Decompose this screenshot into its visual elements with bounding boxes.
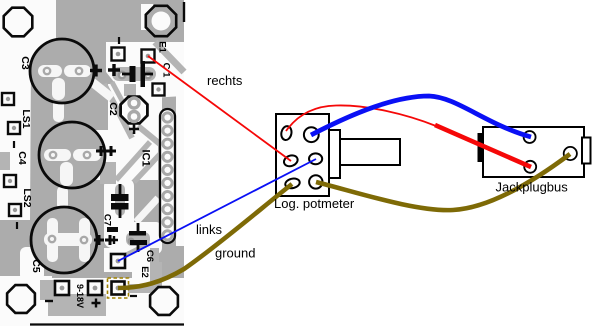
C4 inner trace lower bbox=[60, 162, 73, 186]
C3 pad hole right bbox=[76, 68, 82, 74]
pad below C1 bbox=[153, 84, 165, 96]
solder dot C6 lead bbox=[128, 238, 135, 245]
wire red thin pot top-left toward jack bbox=[286, 105, 436, 131]
PCB white etch region C6 pad bbox=[104, 248, 134, 272]
pad supply minus bbox=[55, 281, 69, 295]
C5 pad hole right bbox=[81, 237, 87, 243]
svg-text:C3: C3 bbox=[19, 56, 31, 70]
pad LS1 a bbox=[2, 93, 14, 105]
PCB board copper pour bbox=[0, 0, 184, 326]
jack hole top bbox=[524, 131, 536, 143]
svg-text:C2: C2 bbox=[107, 102, 119, 116]
potentiometer shaft bbox=[340, 139, 400, 165]
PCB white etch region C2 bbox=[108, 84, 162, 140]
C4 inner trace left bbox=[44, 149, 71, 161]
C2 hole bottom bbox=[129, 112, 139, 122]
LS1 minus mark bbox=[13, 141, 15, 148]
capacitor C3 body bbox=[30, 39, 94, 103]
C5 pad hole left bbox=[49, 236, 55, 242]
PCB white etch region C6/E2 labels bbox=[132, 246, 156, 282]
jack hole bottom bbox=[524, 161, 536, 173]
supply minus mark bbox=[45, 300, 53, 302]
C3 polarity plus left bbox=[90, 65, 102, 77]
pad LS1 b bbox=[8, 122, 20, 134]
svg-text:C7: C7 bbox=[102, 214, 113, 226]
mounting hole top-left bbox=[4, 8, 33, 37]
supply plus mark bbox=[92, 299, 101, 308]
copper trace diagonal C2 area 1 bbox=[104, 84, 132, 138]
pot terminal top-left bbox=[280, 125, 293, 141]
capacitor C4 body bbox=[39, 122, 105, 188]
wire blue thin C6 pad to pot mid-right bbox=[118, 159, 316, 261]
potentiometer flange bbox=[329, 130, 340, 178]
copper trace diagonal C2 area 2 bbox=[112, 82, 126, 108]
PCB white etch region right column bbox=[176, 96, 184, 246]
C5 inner trace vertical right bbox=[79, 218, 90, 262]
pad P1 bbox=[112, 48, 125, 61]
mounting hole top-right bbox=[146, 6, 176, 36]
mounting hole top-right bore bbox=[152, 12, 171, 31]
wire red thin E1 to pot mid-left bbox=[148, 56, 291, 161]
svg-text:ground: ground bbox=[215, 246, 255, 261]
copper trace above bottom-right octagon bbox=[150, 262, 162, 286]
copper trace C4 edge blob bbox=[100, 162, 116, 184]
small bar below C7 bbox=[107, 227, 118, 232]
svg-text:links: links bbox=[196, 222, 223, 237]
svg-text:LS2: LS2 bbox=[21, 188, 33, 207]
IC1 pin holes bbox=[163, 113, 172, 240]
C5 plus mark 1 bbox=[94, 235, 104, 245]
E2 minus mark bbox=[130, 295, 137, 297]
pad LS2 a bbox=[4, 175, 16, 187]
pad supply plus bbox=[88, 281, 102, 295]
PCB white etch region bottom-left bbox=[0, 276, 52, 326]
PCB white etch region left of top-right hole bbox=[141, 4, 153, 30]
C5 inner trace vertical left bbox=[47, 218, 58, 262]
svg-text:LS1: LS1 bbox=[20, 109, 32, 128]
potentiometer body bbox=[276, 114, 329, 196]
svg-text:E2: E2 bbox=[139, 266, 150, 278]
PCB white etch region C1/E1 bbox=[106, 42, 184, 98]
wire ground E2 pad to pot bottom-left bbox=[118, 184, 292, 288]
copper trace bar behind C7 bbox=[115, 184, 125, 216]
PCB white etch region C5 label bbox=[20, 247, 44, 281]
wire red thick to jack bottom hole bbox=[435, 125, 531, 167]
C4 pad hole right bbox=[84, 152, 90, 158]
C4 plus mark 1 bbox=[96, 146, 106, 156]
C5 inner trace middle bbox=[44, 233, 92, 246]
svg-text:C6: C6 bbox=[144, 250, 155, 262]
svg-text:9-18V: 9-18V bbox=[75, 284, 85, 308]
C3 pad hole left bbox=[44, 68, 50, 74]
IC1 header strip bbox=[160, 109, 175, 243]
C4 inner trace right bbox=[73, 149, 101, 161]
copper trace between C4 and C5 bbox=[57, 186, 68, 210]
copper trace from C6 pad bbox=[124, 243, 150, 256]
copper trace C3 to C2 white diagonal bbox=[92, 82, 112, 98]
svg-text:C4: C4 bbox=[16, 151, 28, 165]
svg-text:Log. potmeter: Log. potmeter bbox=[274, 196, 355, 211]
svg-text:Jackplugbus: Jackplugbus bbox=[496, 180, 569, 195]
white streak right of C7 bbox=[136, 198, 158, 222]
copper trace diagonal above C7 b bbox=[134, 152, 162, 182]
PCB white etch region C7 bbox=[104, 178, 134, 248]
pot terminal top-right bbox=[304, 127, 319, 142]
svg-text:E1: E1 bbox=[157, 41, 168, 53]
svg-text:rechts: rechts bbox=[207, 73, 243, 88]
copper trace region below supply pads bbox=[48, 294, 106, 316]
pad E1 bbox=[142, 50, 155, 63]
plus below C7 bbox=[110, 236, 118, 244]
svg-text:IC1: IC1 bbox=[140, 149, 152, 166]
copper trace stub below C1 bbox=[124, 84, 136, 96]
capacitor C7 symbol bbox=[111, 184, 129, 218]
copper trace diagonal above C7 a bbox=[116, 142, 150, 180]
jack right tab bbox=[582, 138, 591, 164]
PCB white etch region above C7 bbox=[94, 130, 158, 180]
C5 plus mark 2 bbox=[105, 235, 115, 245]
copper trace diagonal C2 to IC1 bbox=[138, 126, 160, 144]
copper trace bar behind C6 bbox=[126, 232, 150, 246]
jack hole right bbox=[564, 147, 577, 160]
pot terminal mid-right bbox=[309, 153, 322, 164]
solder dot C1 left bbox=[118, 71, 127, 80]
C2 polarity plus bbox=[129, 124, 139, 134]
C4 plus mark 2 bbox=[106, 146, 116, 156]
copper trace crossing left strip bbox=[0, 152, 10, 170]
PCB right border segment bbox=[183, 2, 185, 22]
pad E2 bbox=[112, 282, 125, 295]
capacitor C5 body bbox=[31, 207, 97, 273]
C3 inner trace lower bbox=[52, 78, 65, 100]
PCB white etch region top-left bbox=[0, 0, 56, 220]
svg-text:C5: C5 bbox=[30, 259, 42, 273]
LS2 minus mark bbox=[16, 222, 18, 229]
copper trace between C3 and C4 bbox=[53, 92, 64, 122]
svg-text:C 1: C 1 bbox=[161, 63, 172, 79]
E2 selection dashed box bbox=[108, 278, 129, 298]
copper trace column right of C6 bbox=[150, 248, 159, 278]
PCB white etch region C6 cap bbox=[120, 222, 162, 254]
copper trace left of supply pad bbox=[40, 280, 56, 300]
PCB bottom border bbox=[30, 323, 184, 325]
C3 inner trace left bbox=[38, 65, 62, 77]
PCB white etch region bottom strip bbox=[36, 278, 184, 326]
C2 hole top bbox=[129, 98, 139, 108]
C3 plus mark bbox=[108, 64, 120, 76]
pad P1 tick bbox=[118, 37, 120, 44]
pot terminal bottom-left bbox=[284, 177, 300, 189]
wire ground pot bottom-right to jack right hole bbox=[316, 154, 570, 210]
solder dot C1 right bbox=[144, 71, 153, 80]
capacitor C1 symbol bbox=[122, 61, 153, 87]
capacitor C6 symbol bbox=[129, 223, 147, 252]
wire blue thick pot top-right to jack top hole bbox=[311, 96, 531, 137]
capacitor C2 octagon pad bbox=[121, 97, 148, 124]
pad LS2 b bbox=[9, 204, 21, 216]
C3 inner trace right bbox=[64, 65, 91, 77]
pot terminal mid-left bbox=[282, 154, 299, 169]
copper trace bar under C1 bbox=[112, 67, 156, 81]
jack left tab bbox=[479, 134, 484, 161]
mounting hole bottom-left bbox=[7, 285, 35, 313]
mounting hole bottom-right bbox=[150, 287, 178, 315]
C4 pad hole left bbox=[50, 152, 56, 158]
pot terminal bottom-right bbox=[309, 175, 322, 188]
copper trace right of E2 pad bbox=[128, 284, 158, 293]
copper trace diagonal near E1 bbox=[155, 42, 184, 72]
jack body bbox=[483, 127, 584, 177]
pad C6 bbox=[111, 254, 125, 268]
